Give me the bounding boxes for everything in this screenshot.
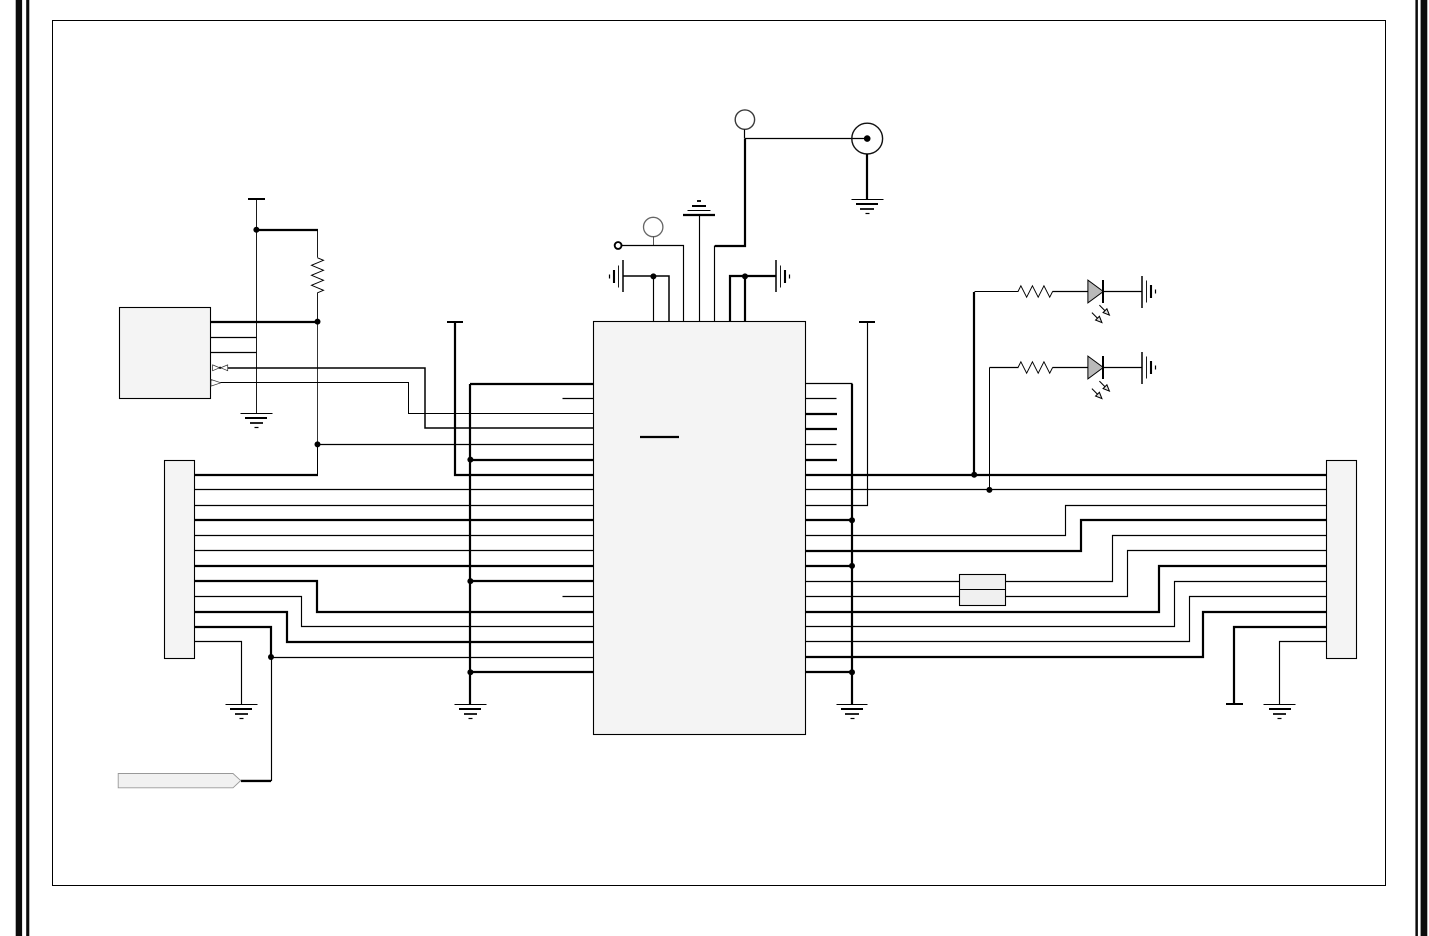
junction VCC1/R1: [253, 227, 259, 233]
wire k14 to RN1: [806, 596, 960, 598]
power symbol VCC2: [447, 321, 463, 323]
pin stub IC right k4: [806, 444, 837, 446]
wire J1 row k17 to ground: [195, 642, 242, 705]
wire J1 row k13 staircase: [195, 581, 594, 612]
power symbol P1: [644, 217, 663, 245]
wire E1 to IC pins: [623, 276, 669, 322]
wire k11 staircase: [806, 520, 1326, 551]
wire IC top pin4: [699, 216, 701, 322]
net flag label: [118, 774, 241, 788]
resistor R2: [1018, 286, 1053, 297]
ground GND2: [455, 705, 487, 719]
junction node B: [268, 654, 274, 660]
wire R3 to LED2: [1053, 367, 1088, 369]
wire IC top pin6: [730, 276, 776, 322]
wire IC right k7 to J2: [806, 489, 1327, 491]
wire J1 row k7: [195, 489, 595, 491]
pin stub IC left k14: [563, 596, 595, 598]
junction top left: [650, 273, 656, 279]
pin marker X1 pin5: [211, 380, 221, 387]
earth ground E3: [1142, 276, 1156, 308]
junction rail right k12: [849, 563, 855, 569]
wire TP1 to ground: [866, 154, 868, 200]
wire IC right k0: [806, 383, 853, 385]
power symbol P2: [735, 110, 754, 139]
terminal circle T1: [615, 242, 622, 249]
wire R1 bottom to node A: [317, 322, 319, 445]
wire IC right k12: [806, 565, 852, 567]
junction R1/X1 pin1: [315, 319, 321, 325]
junction rail right k9: [849, 517, 855, 523]
wire IC pin left k19: [470, 671, 594, 673]
ground symbol up GND4: [683, 201, 715, 215]
junction rail right k19: [849, 669, 855, 675]
junction node A: [315, 441, 321, 447]
wire J2 row k16 to VCC4: [1234, 627, 1326, 704]
wire IC right k9: [806, 519, 852, 521]
pin stub IC right k3: [806, 428, 837, 430]
wire P2 to IC pin5: [715, 139, 745, 246]
wire J1 row k14 staircase: [195, 597, 595, 627]
wire node A to IC: [318, 444, 595, 446]
wire ground rail left: [469, 384, 471, 704]
wire VCC2 to IC: [455, 322, 594, 475]
wire LED1 vertical: [973, 292, 975, 475]
wire flag lead: [241, 780, 271, 782]
wire J1 row k16 staircase: [195, 627, 271, 657]
wire IC pin left k5: [470, 459, 594, 461]
junction rail left k13: [467, 578, 473, 584]
wire IC right k6 to J2: [806, 474, 1326, 476]
wire k16 staircase: [806, 582, 1327, 627]
wire node B to flag: [241, 658, 272, 781]
wire T1 to IC pin3: [622, 246, 684, 322]
wire VCC3 to IC k8: [806, 322, 868, 506]
wire LED2 feed: [990, 367, 1019, 369]
wire IC top pin5 drop: [714, 246, 716, 322]
ground GND3: [226, 705, 258, 719]
earth ground E1: [610, 260, 624, 292]
wire P2 to socket: [745, 138, 868, 140]
pin marker X1 pin4: [213, 365, 228, 371]
ground GND7: [1264, 705, 1296, 719]
wire k13 to RN1: [806, 581, 960, 583]
wire LED2 to earth: [1104, 367, 1142, 369]
wire X1 pin3: [211, 352, 257, 354]
wire RN1 to J2 row: [1006, 536, 1327, 582]
wire LED1 to earth: [1104, 291, 1142, 293]
ground GND1: [241, 414, 273, 428]
power symbol VCC4: [1226, 703, 1243, 705]
led D1: [1088, 280, 1110, 323]
wire R1 top lead: [317, 230, 319, 258]
wire IC pin left k13: [470, 580, 594, 582]
wire X1 pin1: [210, 321, 318, 323]
power symbol VCC1: [248, 199, 265, 230]
wire node A to J1 pin1: [195, 474, 318, 476]
wire k10 staircase: [806, 506, 1327, 536]
wire RN1 to J2 row2: [1006, 551, 1327, 597]
pin stub IC right k2: [806, 413, 837, 415]
wire k17 staircase: [806, 597, 1327, 642]
ic U1: [594, 322, 806, 735]
wire k15 staircase: [806, 566, 1326, 612]
junction top right: [742, 273, 748, 279]
wire R2 to LED1: [1053, 291, 1088, 293]
label bar U1: [640, 436, 679, 438]
resistor R3: [1018, 362, 1053, 373]
pin stub IC right k1: [806, 398, 837, 400]
ground GND6: [837, 705, 868, 719]
wire IC right k19: [806, 671, 852, 673]
junction rail left k19: [467, 669, 473, 675]
wire VCC1 to R1 top: [256, 229, 318, 231]
pin stub IC left k1: [563, 398, 595, 400]
wire X1 pin4 to IC: [228, 368, 594, 428]
earth ground E4: [1142, 352, 1156, 384]
power symbol VCC3: [859, 321, 875, 323]
wire node A drop: [317, 445, 319, 475]
oscillator X1: [120, 308, 211, 399]
connector J2: [1327, 461, 1357, 659]
wire k18 staircase: [806, 612, 1326, 657]
wire J1 row k8: [195, 505, 595, 507]
wire J1 row k9: [195, 519, 594, 521]
wire IC top pin7: [744, 276, 746, 322]
wire X1 pin2: [211, 337, 257, 339]
led D2: [1088, 356, 1110, 399]
resistor network RN1: [960, 575, 1006, 606]
earth ground E2: [776, 260, 790, 292]
connector J1: [165, 461, 195, 659]
wire J1 row k11: [195, 550, 595, 552]
junction rail left k5: [467, 457, 473, 463]
socket TP1: [852, 123, 883, 154]
wire IC pin left k0: [470, 383, 594, 385]
wire node B to IC: [272, 657, 595, 659]
wire X1 pin5 to IC: [221, 383, 595, 414]
wire J1 row k15 staircase: [195, 612, 594, 642]
wire IC top pin1: [653, 277, 655, 322]
wire R1 bottom lead: [317, 293, 319, 322]
wire J1 row k10: [195, 535, 595, 537]
wire J2 row k17 to ground: [1280, 642, 1327, 705]
wire J1 row k12: [195, 565, 594, 567]
wire VCC1 vertical to ground: [256, 230, 258, 414]
wire LED2 vertical: [989, 368, 991, 490]
ground GND5: [852, 200, 884, 214]
wire ground rail right: [851, 384, 853, 704]
wire LED1 feed: [975, 291, 1019, 293]
resistor R1: [312, 258, 324, 293]
junction LED2 tap: [986, 487, 992, 493]
pin stub IC right k5: [806, 459, 837, 461]
junction LED1 tap: [971, 472, 977, 478]
